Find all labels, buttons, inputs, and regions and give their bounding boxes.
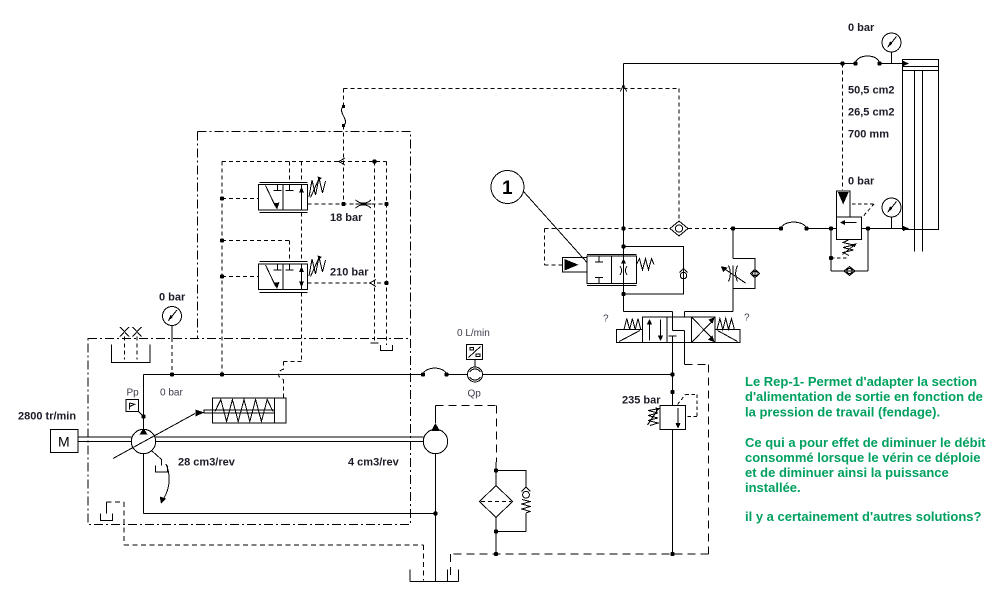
wire: jog to directional valve port A — [624, 312, 673, 318]
wire: main vertical line x=623.5 — [623, 64, 625, 312]
svg-text:Qp: Qp — [468, 389, 482, 400]
valve V7 18 bar body — [260, 183, 308, 213]
wire: control pressure dashed to spring box — [284, 293, 302, 370]
pressure test point Pp box — [126, 400, 139, 412]
check valve CV1 in V1 bypass — [680, 268, 688, 272]
wire: P2 outlet dashed to filter — [436, 406, 497, 463]
svg-text:210 bar: 210 bar — [330, 267, 369, 279]
junction dots around V5 — [804, 226, 870, 260]
V1 solenoid — [563, 258, 588, 273]
wire: pump delivery line y=374.5 — [144, 368, 673, 374]
wire: dashed pilot horizontal top y=88 — [344, 88, 679, 90]
V5 spring drain dashed — [831, 257, 847, 259]
electric motor M1 — [51, 430, 79, 453]
svg-text:0 bar: 0 bar — [848, 22, 875, 34]
flow sensor box — [467, 345, 483, 360]
svg-text:0 bar: 0 bar — [160, 388, 183, 399]
V3 right position crossed arrows — [692, 323, 712, 343]
wire: jog from throttle to directional valve port B — [685, 289, 734, 318]
valve V8 210 bar body — [260, 262, 308, 293]
svg-text:installée.: installée. — [745, 480, 801, 495]
wire: dashed pilot from top line down to D1 — [678, 89, 680, 222]
svg-text:26,5 cm2: 26,5 cm2 — [848, 107, 894, 119]
svg-text:?: ? — [744, 313, 750, 324]
pilot direction arrow up at x=623 — [620, 85, 626, 92]
callout circle 1 — [491, 171, 524, 204]
wire: V5 outlet to cylinder bottom — [862, 228, 904, 230]
svg-text:consommé lorsque le vérin ce d: consommé lorsque le vérin ce déploie — [745, 450, 981, 465]
P1 case drain to internal tank — [152, 451, 162, 466]
V1 left box blocked ports — [595, 256, 603, 284]
gauge PM2 at cylinder rod end — [882, 198, 901, 217]
V3 centre position — [673, 317, 685, 343]
wire: dashed control down from V7 — [301, 213, 303, 262]
cylinder C1 — [903, 60, 939, 230]
P1 control spring assembly — [213, 398, 287, 423]
wire: dashed vertical x=386.5 to tank symbol — [386, 162, 388, 346]
wire: P1 drain bottom line — [144, 513, 436, 515]
svg-text:2800 tr/min: 2800 tr/min — [18, 411, 76, 423]
drive shaft pump P1 to pump P2 — [156, 437, 424, 442]
V3 left spring — [624, 319, 641, 330]
V4 bypass loop with check — [733, 259, 755, 289]
svg-text:28 cm3/rev: 28 cm3/rev — [178, 457, 236, 469]
svg-text:la pression de travail (fendag: la pression de travail (fendage). — [745, 405, 940, 420]
wire: left case-drain dashed to tank — [107, 502, 424, 581]
svg-text:Pp: Pp — [127, 388, 140, 399]
throttle on 18 bar line — [356, 200, 372, 208]
proportional valve V1 (rep 1) body — [587, 255, 637, 286]
breather X marks — [120, 327, 142, 337]
P1 displacement arrow — [113, 414, 195, 459]
svg-text:Ce qui a pour effet de diminue: Ce qui a pour effet de diminuer le débit — [745, 435, 986, 450]
variable pump P1 28 cm3/rev — [143, 375, 145, 430]
enclosure (dash-dot) pump unit — [88, 339, 411, 525]
V8 spring with adjust arrow — [309, 257, 326, 276]
svg-text:0 bar: 0 bar — [159, 292, 186, 304]
shuttle/metering orifice D1 — [670, 221, 688, 236]
wire: main pressure line top (cylinder cap end supply) — [624, 56, 904, 63]
throttle check valve V4 vertical line — [732, 229, 734, 289]
check valve CV3 in V5 bypass — [844, 267, 855, 276]
green annotation text — [745, 374, 986, 524]
svg-text:il y a certainement d'autres s: il y a certainement d'autres solutions? — [745, 509, 981, 524]
wire: V6 outlet to return — [672, 430, 674, 555]
flow meter FM1 — [468, 367, 483, 382]
V3 left position arrows — [649, 321, 651, 341]
drive shaft motor to pump P1 — [78, 437, 132, 442]
V1 bypass check loop — [624, 247, 684, 295]
V3 right solenoid box — [715, 330, 740, 343]
svg-text:235 bar: 235 bar — [622, 395, 661, 407]
enclosure (dash-dot) valve block — [198, 132, 411, 339]
svg-text:700 mm: 700 mm — [848, 129, 889, 141]
wire: dashed pilot main horizontal at y=228 — [545, 228, 671, 230]
pilot arrow box on V5 — [837, 191, 851, 217]
main tank T1 — [410, 570, 459, 582]
wire: dashed internal top line y=161 — [222, 161, 387, 163]
V8 ports dashed — [222, 276, 259, 278]
P1 rotation arc arrow — [164, 464, 170, 499]
wire: V3 port T return dashed — [684, 343, 686, 365]
V5 pilot sense dashed — [852, 204, 874, 217]
svg-text:4 cm3/rev: 4 cm3/rev — [348, 457, 400, 469]
V5 spring — [843, 240, 854, 256]
relief valve V6 235 bar — [660, 406, 686, 430]
svg-text:18 bar: 18 bar — [330, 212, 363, 224]
wire: V3 port P down to relief valve V6 — [672, 343, 674, 406]
wire: dashed pilot line down to reducing valve V5 — [842, 64, 844, 191]
gauge PM3 pump outlet — [163, 307, 182, 326]
pump P2 4 cm3/rev — [423, 429, 447, 453]
svg-text:et de diminuer ainsi la puissa: et de diminuer ainsi la puissance — [745, 465, 949, 480]
svg-text:0 L/min: 0 L/min — [457, 328, 490, 339]
V1 pilot dashed from line y=228 — [545, 229, 563, 265]
gauge PM1 top right — [882, 33, 901, 52]
callout leader line — [524, 192, 588, 263]
svg-text:50,5 cm2: 50,5 cm2 — [848, 85, 894, 97]
V1 spring — [637, 259, 655, 271]
V1 right box throttling passage — [621, 259, 626, 264]
hose symbol on pilot line — [343, 89, 345, 107]
wire: dashed left vertical x=222 — [221, 162, 223, 375]
svg-text:?: ? — [603, 314, 609, 325]
filter F1 — [495, 471, 497, 486]
V4 variable throttle arcs — [729, 266, 738, 282]
cylinder top port arrow — [903, 61, 909, 66]
internal drain tank T2 — [106, 502, 108, 514]
wire: filter outlet to return — [495, 532, 497, 555]
V6 spring — [648, 409, 660, 426]
svg-text:M: M — [58, 434, 70, 450]
svg-text:Le Rep-1- Permet d'adapter la: Le Rep-1- Permet d'adapter la section — [745, 374, 977, 389]
wire: return line dashed bottom — [451, 554, 709, 578]
V3 right spring — [717, 319, 734, 330]
directional valve V3 body — [643, 317, 716, 343]
V5 bypass check loop — [831, 229, 868, 272]
filter bypass check with spring — [496, 471, 526, 488]
svg-text:0 bar: 0 bar — [848, 176, 875, 188]
wire: dashed vertical x=374.5 plugged — [374, 162, 376, 344]
node junction dots on top line — [840, 61, 881, 65]
V6 pilot dashed — [678, 395, 698, 417]
wire: line into V5 from left with hop — [733, 222, 837, 228]
V3 left solenoid box — [617, 330, 643, 343]
svg-text:d'alimentation de sortie en fo: d'alimentation de sortie en fonction de — [745, 389, 983, 404]
cylinder bottom port arrow — [903, 226, 909, 231]
svg-text:1: 1 — [502, 178, 513, 199]
V7 spring with adjust arrow — [309, 178, 326, 197]
V7 ports dashed — [222, 198, 259, 200]
V4 adjust arrow — [726, 270, 746, 284]
pressure reducing valve V5 body — [837, 217, 862, 240]
breather tank box — [112, 345, 151, 363]
